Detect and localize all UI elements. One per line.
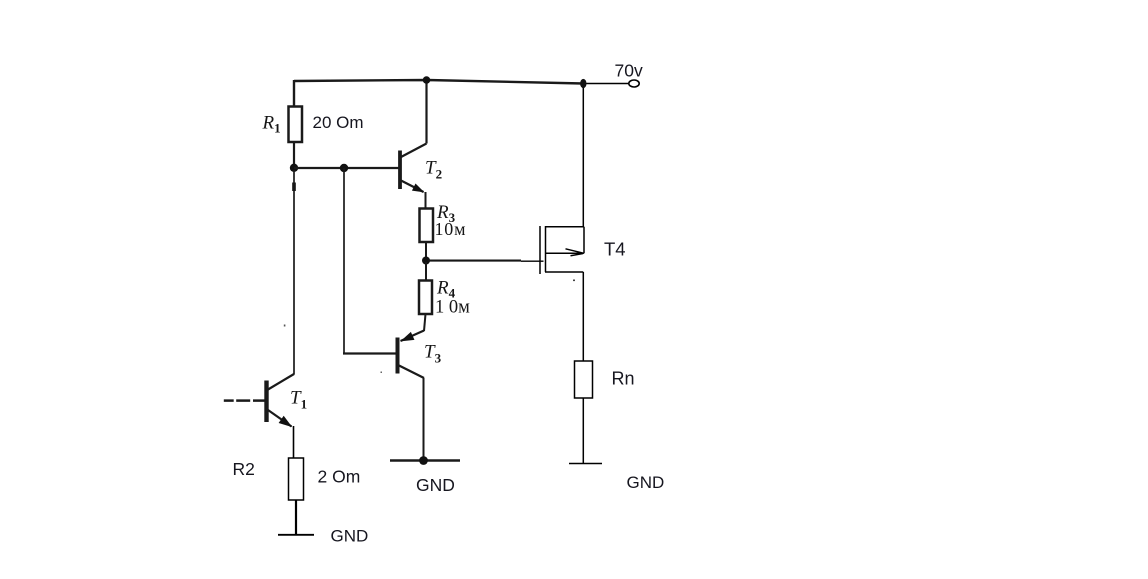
wire T2 emitter to R3	[425, 192, 427, 209]
wire node A down to T1 collector	[293, 170, 295, 375]
transistor T2	[400, 144, 427, 197]
svg-text:R2: R2	[233, 459, 255, 479]
svg-text:2 Om: 2 Om	[318, 467, 361, 487]
resistor R4	[419, 281, 432, 315]
transistor T3	[398, 331, 425, 379]
svg-text:20 Om: 20 Om	[313, 113, 364, 132]
wire node D to T4 gate	[428, 260, 521, 262]
node B junction dot	[340, 164, 348, 172]
svg-text:GND: GND	[416, 475, 455, 495]
wire R3 to node D	[425, 242, 427, 262]
svg-text:GND: GND	[627, 473, 665, 492]
wire node B down to T3 base	[343, 168, 345, 354]
ground bar (R2 branch)	[278, 534, 314, 536]
resistor R1	[289, 107, 303, 143]
wire top supply rail	[294, 80, 583, 84]
svg-text:70v: 70v	[615, 61, 643, 81]
wire R4 down	[424, 314, 426, 331]
speck	[573, 280, 575, 282]
wire R2 to ground	[295, 500, 297, 535]
speck	[284, 325, 286, 327]
wire T1 base dashed	[224, 399, 234, 402]
resistor R3	[420, 209, 434, 243]
wire node A to T2 base	[294, 167, 399, 169]
wire T3 base	[343, 352, 396, 354]
wire T3 emitter down to ground	[423, 378, 425, 461]
wire rail down to T4 drain	[582, 84, 584, 228]
wire rail to 70v terminal	[583, 83, 629, 85]
wire Rn to ground	[582, 398, 584, 464]
svg-text:T2: T2	[425, 158, 442, 182]
transistor T1	[267, 374, 295, 431]
wire R1 bottom to node A	[293, 142, 295, 170]
wire artifact tick below node A	[292, 183, 296, 192]
wire T4 source down to Rn	[582, 272, 584, 362]
wire T1 emitter down to R2	[293, 426, 295, 459]
resistor R2	[289, 458, 304, 500]
node F junction dot on rail	[580, 79, 586, 88]
svg-text:T1: T1	[290, 388, 307, 412]
ground bar (T3 branch)	[390, 459, 460, 461]
svg-text:GND: GND	[331, 527, 369, 546]
node C junction dot on rail	[423, 76, 431, 84]
speck	[381, 372, 383, 374]
svg-text:R1: R1	[262, 113, 281, 136]
terminal 70v (open ellipse)	[629, 80, 639, 87]
node E junction dot on ground	[419, 456, 428, 465]
svg-text:Rn: Rn	[612, 369, 635, 389]
wire T2 collector up to rail	[425, 79, 427, 144]
node D junction dot	[422, 257, 430, 265]
svg-text:T4: T4	[604, 239, 626, 260]
svg-text:10м: 10м	[435, 219, 467, 239]
svg-text:1 0м: 1 0м	[435, 298, 470, 318]
transistor T4 (MOSFET)	[540, 226, 584, 274]
wire node D to R4	[425, 262, 427, 281]
resistor Rn	[575, 361, 593, 398]
wire rail corner down to R1	[293, 80, 295, 107]
ground bar (Rn branch)	[569, 463, 602, 465]
svg-text:T3: T3	[424, 342, 442, 366]
node A junction dot	[290, 164, 298, 172]
